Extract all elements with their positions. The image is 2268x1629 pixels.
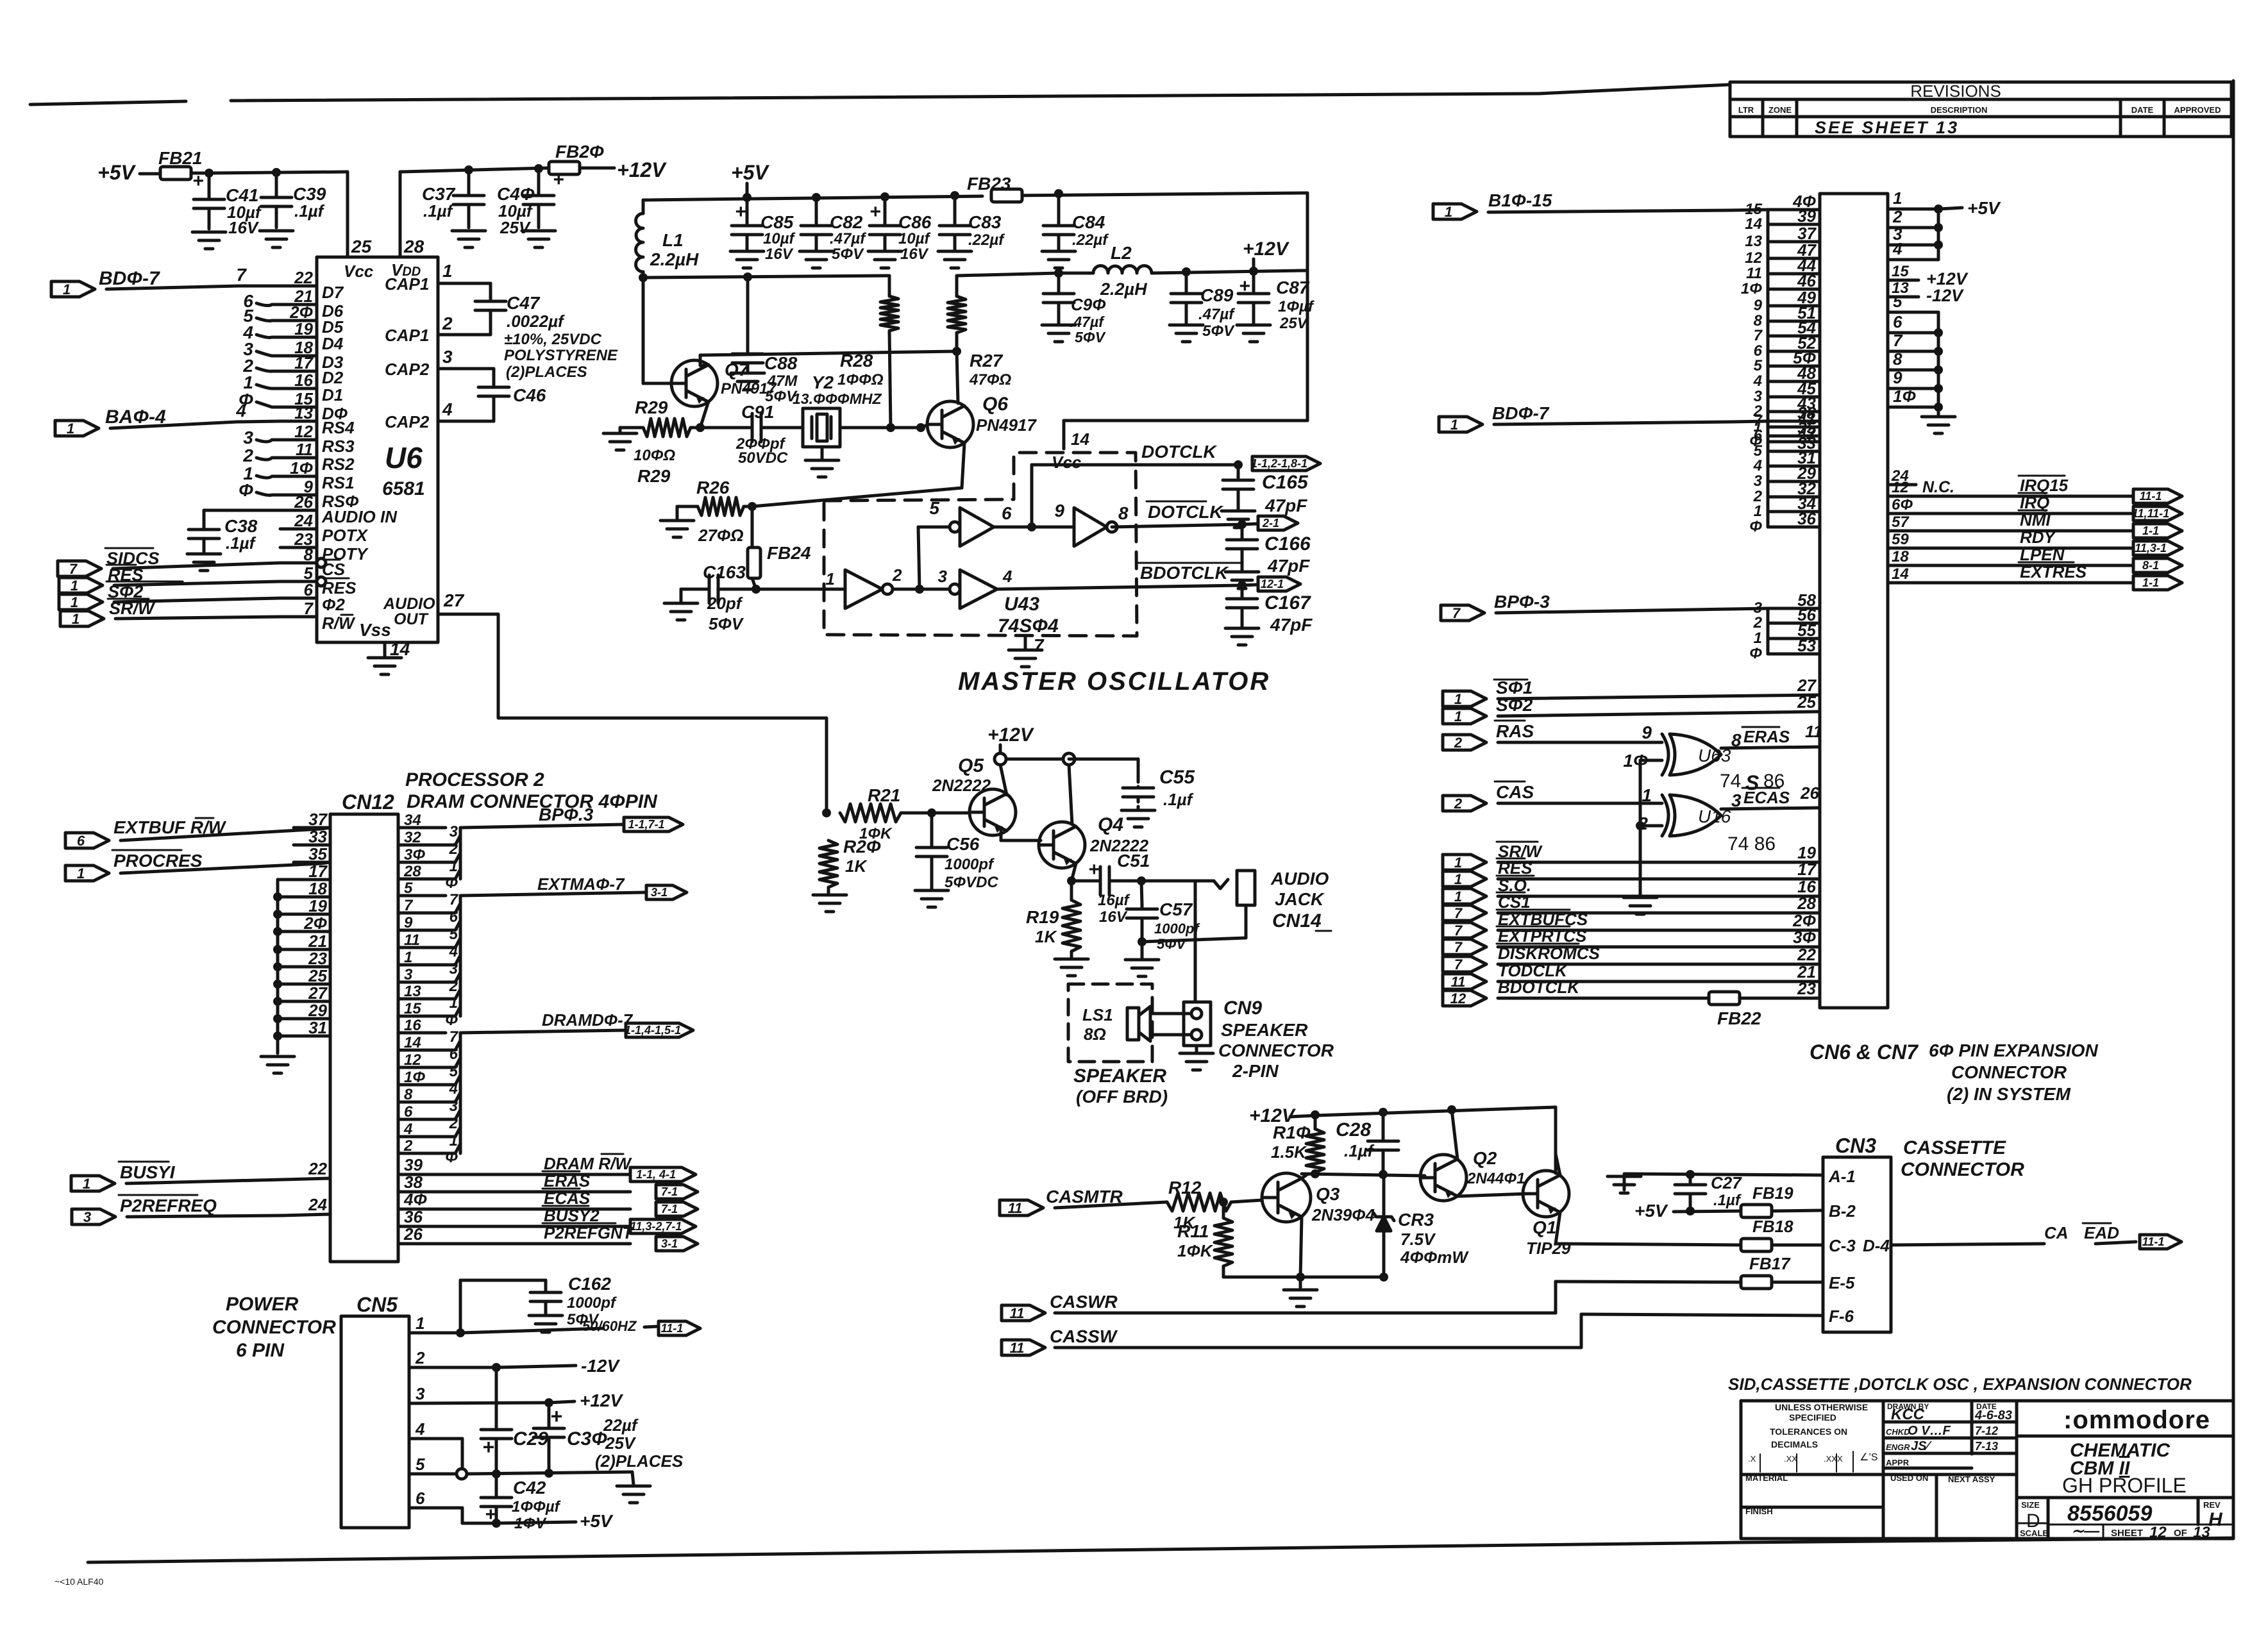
svg-text:AUDIO: AUDIO	[1270, 869, 1329, 889]
wire pin5	[409, 1472, 634, 1485]
svg-text:12: 12	[294, 422, 313, 441]
ground	[730, 251, 764, 268]
wire	[1498, 741, 1662, 744]
wire	[1498, 692, 1820, 716]
capacitor C88	[732, 277, 798, 405]
svg-text:FB21: FB21	[158, 148, 202, 168]
svg-text:C88: C88	[764, 353, 798, 373]
capacitor C85	[732, 197, 796, 263]
svg-text:.0022µf: .0022µf	[507, 312, 565, 331]
node MASTER OSCILLATOR	[958, 667, 1270, 696]
svg-text:5: 5	[1754, 357, 1763, 374]
svg-text:AUDIO IN: AUDIO IN	[321, 507, 398, 526]
svg-text:3: 3	[83, 1209, 91, 1225]
inductor L2	[1093, 243, 1152, 299]
resistor R19	[1026, 881, 1080, 951]
node CAS tag	[1443, 781, 1534, 812]
svg-text:18: 18	[1892, 548, 1909, 565]
svg-text:Vcc: Vcc	[1052, 453, 1082, 472]
ground	[660, 506, 698, 537]
wire	[691, 426, 744, 430]
svg-text:D4: D4	[322, 334, 344, 353]
ground	[522, 231, 555, 247]
svg-text:A-1: A-1	[1828, 1167, 1856, 1186]
svg-text:CR3: CR3	[1398, 1210, 1434, 1230]
transistor Q5	[932, 755, 1016, 835]
svg-text:1: 1	[71, 578, 78, 594]
svg-text:1Φ: 1Φ	[1741, 280, 1762, 297]
svg-text:1: 1	[1893, 188, 1902, 208]
svg-text:1: 1	[1754, 630, 1762, 647]
bus BA0-4 hooks	[239, 428, 280, 500]
wire	[400, 168, 549, 257]
net +5V	[97, 161, 136, 184]
svg-text:.1µf: .1µf	[1344, 1141, 1375, 1160]
pin CAP2 4	[385, 399, 494, 431]
svg-text:1ΦK: 1ΦK	[859, 825, 893, 842]
wire	[921, 424, 928, 428]
svg-text:R11: R11	[1177, 1221, 1209, 1241]
svg-text:39: 39	[404, 1155, 423, 1174]
capacitor C55	[1123, 759, 1195, 809]
wire	[901, 812, 970, 815]
svg-text:1: 1	[404, 949, 412, 966]
svg-text:1-1,4-1,5-1: 1-1,4-1,5-1	[625, 1024, 681, 1037]
pin 7 ground	[1009, 635, 1045, 667]
svg-text:BDΦ-7: BDΦ-7	[99, 268, 160, 289]
ferrite bead FB18	[1741, 1217, 1823, 1251]
svg-text:5: 5	[416, 1455, 425, 1474]
node sheet title	[1728, 1374, 2192, 1394]
svg-text:4Φ: 4Φ	[403, 1190, 427, 1209]
svg-text:2: 2	[1753, 614, 1763, 631]
capacitor C46	[478, 369, 546, 421]
svg-text:1: 1	[1454, 855, 1462, 871]
wire	[438, 614, 827, 813]
svg-text:+12V: +12V	[580, 1391, 623, 1410]
ground	[452, 231, 485, 247]
svg-text:10µf: 10µf	[763, 230, 796, 247]
svg-text:(2)PLACES: (2)PLACES	[595, 1451, 684, 1471]
junction	[1027, 522, 1036, 531]
svg-text:∼—: ∼—	[2071, 1523, 2100, 1540]
svg-text:2N39Φ4: 2N39Φ4	[1311, 1205, 1375, 1224]
resistor R28	[837, 296, 898, 388]
svg-text:1.5K: 1.5K	[1271, 1142, 1307, 1162]
bus BD0-7 hooks	[239, 291, 280, 410]
svg-text:RAS: RAS	[1496, 721, 1534, 741]
svg-text:Vcc: Vcc	[344, 262, 374, 281]
svg-text:25: 25	[1797, 692, 1816, 712]
svg-text:.47µf: .47µf	[1198, 306, 1235, 323]
svg-text:74SΦ4: 74SΦ4	[998, 615, 1059, 637]
svg-text:16V: 16V	[1099, 908, 1128, 926]
svg-text:5ΦV: 5ΦV	[832, 246, 864, 263]
net +5V	[580, 1511, 614, 1531]
svg-text:22µf: 22µf	[603, 1416, 639, 1435]
svg-text:+: +	[192, 171, 204, 192]
svg-text:15: 15	[1892, 263, 1909, 280]
svg-text:R27: R27	[970, 351, 1004, 371]
inductor L1	[636, 213, 700, 278]
wire	[110, 401, 280, 428]
pin 15 +12V	[1888, 263, 1969, 288]
wire	[30, 101, 186, 104]
node RAS tag	[1443, 721, 1534, 751]
svg-text:14: 14	[1892, 565, 1909, 583]
ferrite bead FB22	[1709, 992, 1761, 1028]
svg-text:C83: C83	[968, 212, 1002, 232]
node CN3 pins	[1828, 1167, 1890, 1326]
node size box	[2017, 1498, 2233, 1539]
svg-text:5: 5	[929, 498, 939, 518]
svg-text:1: 1	[1454, 871, 1462, 887]
svg-text:FB18: FB18	[1752, 1217, 1793, 1236]
node CN9 label	[1218, 998, 1334, 1081]
svg-text:Q6: Q6	[982, 394, 1008, 415]
svg-text:74: 74	[1720, 771, 1741, 792]
resistor R26	[696, 478, 744, 545]
svg-text:SPEAKER: SPEAKER	[1073, 1065, 1166, 1087]
svg-text:9: 9	[1642, 723, 1652, 742]
svg-text:O V…F: O V…F	[1908, 1424, 1951, 1438]
pin 28 VDD	[391, 237, 424, 280]
svg-text:POWER: POWER	[226, 1294, 299, 1315]
svg-text:20pf: 20pf	[707, 594, 743, 613]
wire	[460, 824, 624, 828]
inverter U43C	[929, 498, 1012, 546]
wire pin3	[409, 1401, 575, 1403]
transistor Q3	[1262, 1173, 1375, 1224]
node BP0.3 out	[539, 805, 683, 831]
svg-text:27: 27	[443, 590, 465, 610]
svg-text:CN6 & CN7: CN6 & CN7	[1810, 1040, 1919, 1064]
wire gnd bus	[278, 880, 330, 1053]
wire DOTCLKbar	[1112, 524, 1257, 527]
ground	[938, 251, 971, 268]
resistor R27	[948, 296, 1011, 388]
pin 14 VSS	[359, 620, 410, 659]
svg-text:FB19: FB19	[1752, 1183, 1793, 1203]
wire	[1223, 1276, 1384, 1279]
wire	[737, 588, 845, 591]
junction	[886, 423, 925, 432]
node PROCESSOR 2 label	[405, 769, 658, 812]
junction	[1138, 937, 1147, 946]
inverter U43D	[1054, 501, 1129, 546]
svg-text:24: 24	[294, 511, 313, 530]
pin CAP2 3	[385, 347, 494, 379]
svg-text:SIZE: SIZE	[2021, 1500, 2040, 1510]
svg-text:11-1: 11-1	[2142, 1235, 2165, 1248]
junction	[915, 585, 924, 594]
svg-text:13.ΦΦΦMHZ: 13.ΦΦΦMHZ	[793, 390, 882, 407]
svg-text:+12V: +12V	[617, 158, 667, 181]
capacitor C41	[192, 171, 262, 237]
svg-text:R29: R29	[637, 466, 671, 486]
svg-text:D-4: D-4	[1863, 1236, 1890, 1255]
wire	[2232, 81, 2235, 1538]
svg-text:28: 28	[403, 237, 424, 256]
junction	[927, 808, 936, 817]
bus BP0-3	[446, 828, 460, 879]
svg-text:(2)PLACES: (2)PLACES	[506, 363, 587, 381]
svg-text:KCC: KCC	[1891, 1406, 1925, 1423]
svg-text:6: 6	[404, 1103, 413, 1121]
resistor R21	[840, 785, 901, 842]
svg-text:C57: C57	[1159, 899, 1193, 919]
junction	[1311, 1169, 1388, 1179]
svg-text:6Φ PIN EXPANSION: 6Φ PIN EXPANSION	[1929, 1040, 2098, 1060]
svg-text:7: 7	[236, 265, 247, 285]
svg-text:3: 3	[1754, 472, 1763, 490]
capacitor C83	[939, 196, 1005, 251]
svg-text:ERAS: ERAS	[1743, 727, 1790, 746]
svg-text:47pF: 47pF	[1264, 496, 1307, 515]
svg-text:2-1: 2-1	[1262, 517, 1279, 530]
svg-text:1-1,2-1,8-1: 1-1,2-1,8-1	[1251, 457, 1307, 470]
svg-text:C166: C166	[1264, 533, 1311, 555]
svg-text:CN9: CN9	[1223, 998, 1262, 1019]
svg-text:16V: 16V	[228, 218, 260, 237]
node REVISIONS table	[1730, 81, 2231, 137]
ground	[529, 1316, 562, 1332]
svg-text:.22µf: .22µf	[1072, 231, 1109, 249]
svg-text:11: 11	[1451, 974, 1466, 990]
svg-text:3Φ: 3Φ	[404, 846, 425, 864]
wire	[918, 527, 953, 589]
svg-text:RS1: RS1	[322, 473, 355, 492]
junction	[492, 1469, 553, 1478]
node 50/60HZ tag	[659, 1321, 700, 1335]
CN12 right pin stubs	[398, 812, 459, 1166]
ferrite bead FB19	[1741, 1183, 1823, 1217]
svg-text:6: 6	[1002, 503, 1012, 523]
node jack tip mark	[1214, 880, 1228, 889]
svg-text:11: 11	[404, 931, 420, 949]
node PROCRES tag	[65, 850, 203, 881]
svg-text:DOTCLK: DOTCLK	[1148, 502, 1223, 522]
svg-text:4: 4	[1002, 567, 1012, 586]
node commodore	[2017, 1406, 2233, 1436]
connector CN9	[1184, 1002, 1211, 1046]
svg-text:BDOTCLK: BDOTCLK	[1140, 563, 1229, 583]
svg-text:H: H	[2208, 1509, 2223, 1530]
ground	[800, 251, 833, 268]
svg-text:.1µf: .1µf	[423, 201, 454, 221]
capacitor C40	[497, 169, 564, 237]
capacitor C82	[801, 197, 866, 263]
resistor R29	[620, 419, 691, 486]
node drawing number	[2067, 1498, 2233, 1530]
svg-text:POTX: POTX	[322, 526, 368, 545]
wire	[1141, 880, 1214, 883]
node DOTCLK tag	[1251, 456, 1320, 471]
svg-text:5ΦVDC: 5ΦVDC	[945, 874, 998, 891]
junction ring	[457, 1469, 467, 1479]
svg-text:+: +	[869, 201, 881, 222]
svg-text:23: 23	[1797, 979, 1816, 998]
node A	[55, 1576, 104, 1587]
svg-text:APPROVED: APPROVED	[2174, 105, 2221, 115]
ground	[1222, 511, 1255, 528]
svg-text:2N2222: 2N2222	[932, 776, 991, 795]
capacitor C166	[1227, 524, 1311, 576]
svg-text:1000pf: 1000pf	[567, 1294, 617, 1312]
ferrite bead FB17	[1741, 1254, 1823, 1289]
net +12V	[580, 1391, 623, 1410]
capacitor C37	[422, 170, 484, 228]
capacitor C84	[1043, 194, 1109, 251]
svg-text:2: 2	[442, 313, 453, 333]
svg-text:6 PIN: 6 PIN	[236, 1340, 285, 1361]
svg-text:5ΦV: 5ΦV	[1202, 322, 1235, 340]
svg-text:(OFF BRD): (OFF BRD)	[1076, 1087, 1168, 1107]
wire	[893, 588, 950, 591]
node CASWR tag	[1002, 1292, 1118, 1321]
svg-text:11-1: 11-1	[661, 1322, 684, 1335]
ground	[192, 232, 226, 249]
svg-text:Φ: Φ	[1749, 645, 1762, 662]
svg-text:14: 14	[1745, 215, 1762, 233]
ground	[1055, 951, 1088, 976]
svg-text:3: 3	[938, 567, 948, 586]
svg-text:E-5: E-5	[1829, 1273, 1855, 1292]
junction	[1686, 1207, 1695, 1215]
svg-text:C-3: C-3	[1829, 1236, 1856, 1255]
net +12V	[987, 724, 1035, 759]
wire	[955, 333, 959, 351]
ground	[603, 428, 637, 450]
svg-text:SPECIFIED: SPECIFIED	[1789, 1412, 1836, 1423]
wire DOTCLK	[1032, 465, 1238, 527]
junction	[1311, 1105, 1456, 1119]
svg-text:7-12: 7-12	[1975, 1424, 1998, 1437]
svg-text:.1µf: .1µf	[1163, 790, 1194, 809]
U6 label	[382, 441, 425, 499]
svg-text:39: 39	[1797, 206, 1816, 226]
svg-text:TIP29: TIP29	[1526, 1239, 1571, 1258]
junction	[1067, 876, 1076, 885]
svg-text:BUSYI: BUSYI	[120, 1162, 176, 1182]
svg-text:B1Φ-15: B1Φ-15	[1488, 190, 1552, 210]
svg-text:3: 3	[442, 347, 453, 367]
svg-text:C55: C55	[1159, 767, 1195, 788]
svg-text:12: 12	[404, 1051, 421, 1069]
svg-text:TOLERANCES ON: TOLERANCES ON	[1770, 1426, 1847, 1437]
node P2REFREQ tag	[72, 1195, 217, 1225]
svg-text:11: 11	[1010, 1340, 1025, 1356]
ground	[805, 460, 839, 477]
svg-text:R1Φ: R1Φ	[1273, 1123, 1311, 1142]
wire rail3	[1059, 271, 1306, 273]
svg-text:36: 36	[1797, 509, 1816, 528]
node S02 tag	[59, 581, 183, 610]
capacitor C167	[1227, 585, 1313, 635]
svg-text:RS2: RS2	[322, 455, 355, 474]
pin 1 +5V	[1888, 188, 2001, 218]
wire	[957, 273, 1059, 296]
svg-text:B-2: B-2	[1829, 1201, 1856, 1221]
svg-text:CN12: CN12	[342, 790, 394, 814]
junction	[1234, 460, 1243, 469]
svg-text:SCALE: SCALE	[2020, 1528, 2048, 1538]
svg-text:C3Φ: C3Φ	[567, 1428, 607, 1449]
ground	[1624, 898, 1657, 914]
node CAS READ tag	[2140, 1235, 2181, 1249]
capacitor C57	[1127, 881, 1200, 952]
capacitor C91	[735, 402, 788, 467]
wire	[700, 401, 709, 428]
svg-text:+: +	[1088, 859, 1100, 880]
node S01 tag	[1443, 678, 1533, 707]
U43 74S04 box	[824, 453, 1137, 636]
node SPEAKER label	[1073, 1065, 1168, 1107]
bus DRAMD0-7	[446, 1033, 460, 1153]
bus EXTMA0-7	[446, 896, 460, 1016]
ground	[1042, 325, 1075, 342]
svg-text:3: 3	[404, 966, 413, 983]
svg-text:APPR: APPR	[1886, 1458, 1910, 1467]
junction	[1686, 1170, 1695, 1179]
capacitor C29	[481, 1367, 548, 1474]
svg-text:32: 32	[404, 829, 421, 846]
wire	[643, 278, 671, 383]
pins IRQ/NMI/RDY/LPEN/EXTRES	[1888, 476, 2182, 590]
wire	[957, 351, 958, 403]
svg-text:.XX: .XX	[1784, 1454, 1797, 1464]
svg-text:1: 1	[1454, 691, 1462, 707]
node CAS READ label	[2044, 1223, 2119, 1242]
svg-text:16: 16	[404, 1017, 421, 1034]
capacitor C90	[1043, 273, 1106, 346]
svg-text:JACK: JACK	[1275, 889, 1325, 909]
svg-text:1: 1	[67, 421, 74, 437]
svg-text:14: 14	[1071, 430, 1089, 449]
wire Q5 collector	[1000, 765, 1007, 795]
wire	[113, 563, 280, 569]
capacitor C87	[1238, 271, 1315, 332]
wire	[127, 1195, 330, 1217]
svg-text:1: 1	[83, 1176, 90, 1192]
svg-text:11: 11	[1805, 722, 1822, 741]
svg-text:EXTRES: EXTRES	[2020, 562, 2087, 581]
ground	[1170, 325, 1203, 342]
svg-text:74 86: 74 86	[1727, 833, 1776, 855]
svg-text:12: 12	[1892, 479, 1909, 496]
wire	[1055, 1202, 1167, 1208]
svg-text:13: 13	[404, 983, 421, 1000]
svg-text:L1: L1	[662, 230, 684, 250]
svg-text:CONNECTOR: CONNECTOR	[1901, 1159, 2024, 1180]
svg-text:1Φµf: 1Φµf	[1278, 298, 1315, 315]
svg-text:26: 26	[294, 492, 313, 512]
svg-text:10ΦΩ: 10ΦΩ	[634, 447, 675, 464]
wire	[121, 862, 330, 873]
node CN6CN7 label	[1810, 1040, 2098, 1104]
xor gate U63	[1623, 723, 1785, 794]
svg-text:.47µf: .47µf	[1070, 313, 1105, 330]
svg-text:CONNECTOR: CONNECTOR	[1951, 1062, 2067, 1082]
net -12V	[581, 1356, 620, 1376]
capacitor C28	[1336, 1112, 1399, 1174]
svg-text:36: 36	[404, 1207, 423, 1226]
svg-text:1: 1	[71, 594, 78, 610]
wire Q2 collector	[1452, 1110, 1457, 1159]
svg-text:4: 4	[415, 1419, 425, 1439]
svg-text:MASTER OSCILLATOR: MASTER OSCILLATOR	[958, 667, 1270, 696]
svg-text:2N44Φ1: 2N44Φ1	[1466, 1170, 1525, 1187]
